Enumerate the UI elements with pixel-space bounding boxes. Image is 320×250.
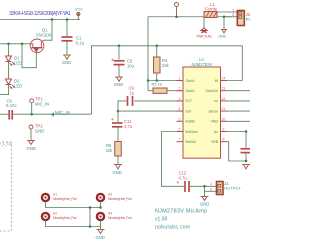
diode D2 LED [6,79,15,88]
svg-text:LED: LED [14,84,22,89]
svg-text:12: 12 [222,97,226,101]
wire pin12 to edge [227,100,250,102]
pin numbers left [179,77,181,142]
ground under J1 [201,197,209,201]
svg-text:MIC_IN: MIC_IN [35,102,49,107]
wire VCC feed riser [147,17,149,91]
svg-text:H3: H3 [108,192,112,196]
svg-text:3: 3 [179,97,181,101]
svg-text:VRef: VRef [210,120,218,124]
wire to gnd [100,227,102,230]
svg-text:VCC: VCC [75,8,83,12]
capacitor C5 [114,61,125,65]
svg-text:H1: H1 [53,192,57,196]
svg-text:MountingHole_Pad: MountingHole_Pad [53,216,77,220]
wire C1 to gnd [66,41,68,55]
transistor Q1 2SK208 [30,39,44,53]
wire diode bottom to left edge [0,85,9,95]
ground flag top-right [221,30,227,34]
svg-text:NJM2783V: NJM2783V [192,62,213,67]
testpoint TP2 [29,125,33,129]
svg-text:4: 4 [179,107,181,111]
svg-text:GND: GND [114,82,123,87]
wire VCC rail top-left [0,19,80,21]
capacitor C11 [117,111,119,122]
wire diode chain vertical [8,44,10,56]
power flag PWR_FLAG [201,28,207,33]
svg-text:5: 5 [179,117,181,121]
svg-text:GND: GND [35,129,44,134]
wire mounting holes [46,201,101,207]
svg-text:2SK208: 2SK208 [36,32,52,37]
mounting hole H4 [97,213,104,220]
svg-text:R5 1k: R5 1k [152,81,162,86]
mounting hole H3 [97,194,104,201]
svg-text:GND: GND [96,235,105,240]
wire C5 stem [118,46,120,60]
svg-text:GND: GND [200,202,209,207]
svg-text:BuMic: BuMic [186,120,196,124]
svg-text:OUTPUT: OUTPUT [224,186,242,191]
pin stubs right [221,81,228,142]
node junction TP1 [30,113,33,116]
svg-text:GND: GND [113,170,122,175]
dashed note box bottom-left [0,142,11,231]
svg-text:1: 1 [179,77,181,81]
node junction output gnd [203,185,206,188]
wire GND drop top-right [223,17,225,30]
connector J1 [217,182,224,195]
svg-text:7: 7 [179,138,181,142]
wire pin2 [167,90,183,92]
wire pin4 [118,110,183,112]
svg-text:0.1u: 0.1u [76,41,85,46]
node junction on rail at drain drop [51,18,54,21]
mounting hole H2 [42,213,49,220]
wire pin11 to edge [227,110,250,112]
wire pin6 to output [162,132,185,187]
svg-text:0.47u: 0.47u [6,103,17,108]
node junction gnd drop [223,16,226,19]
net label MIC_IN [51,112,54,116]
node junction on rail at C1 drop [66,18,69,21]
svg-text:v1.00: v1.00 [155,217,167,223]
svg-text:H2: H2 [53,211,57,215]
diode D1 LED [6,56,15,65]
svg-text:MountingHole_Pad: MountingHole_Pad [108,216,132,220]
wire riser to bias rail [91,46,242,114]
svg-text:32K#H-SG8-12SK208(A)YFYA1: 32K#H-SG8-12SK208(A)YFYA1 [9,11,71,17]
svg-text:Ferrite: Ferrite [205,7,218,12]
svg-text:BufOut: BufOut [186,140,197,144]
wire PWR_FLAG drop [203,17,205,28]
svg-text:MIC_IN: MIC_IN [55,110,70,115]
svg-text:GaInCm: GaInCm [205,89,218,93]
pin numbers right [222,77,226,142]
svg-text:22k: 22k [162,63,170,68]
ground under TP2 [27,141,35,145]
wire MIC_IN to riser [13,113,91,115]
node junction C11 [117,110,120,113]
svg-text:14: 14 [222,77,226,81]
svg-text:Sense: Sense [208,109,218,113]
svg-text:BufGain: BufGain [186,130,198,134]
capacitor C1 [62,37,73,41]
svg-text:13: 13 [222,87,226,91]
wire C5 to gnd [118,65,120,77]
svg-text:2: 2 [179,87,181,91]
svg-text:Ax: Ax [214,130,218,134]
svg-text:GND: GND [27,146,36,151]
wire gate horizontal [0,43,30,45]
svg-text:10u: 10u [127,64,135,69]
wire pin13 to edge [227,90,250,92]
wire pin1 [148,80,183,82]
ground under R6 [114,165,122,170]
ground under C5 [115,77,123,82]
mounting hole H1 [42,194,49,201]
capacitor C12 [185,181,189,192]
wire C11 to R6 [117,127,119,142]
node junction gate/diodes [7,43,10,46]
svg-text:PWR_FLAG: PWR_FLAG [197,35,213,39]
wire drain vertical [44,20,52,41]
svg-text:GND: GND [62,60,71,65]
wire MIC_IN horizontal [0,113,8,115]
svg-text:+: + [111,58,114,63]
capacitor C9 [128,96,133,106]
svg-text:10: 10 [222,117,226,121]
pin names left [186,79,198,144]
svg-text:nc: nc [214,99,218,103]
wire pin3 net [134,100,183,102]
node junction C5 [118,45,121,48]
svg-text:Out: Out [186,109,192,113]
svg-text:?_L_Cu: ?_L_Cu [0,142,12,146]
svg-text:H4: H4 [108,211,112,215]
svg-text:+: + [111,117,114,122]
power VCC circle [175,3,179,17]
wire pin3 corner [118,101,127,111]
svg-text:LED: LED [14,61,22,66]
svg-text:VRB: VRB [211,140,219,144]
wire J1 pin2 gnd [205,190,217,192]
svg-text:9: 9 [223,128,225,132]
svg-text:EXT: EXT [186,99,193,103]
ground mounting holes [97,230,105,234]
svg-text:22k: 22k [106,148,114,153]
wire pin10 to C13 [227,120,250,122]
svg-text:8: 8 [223,138,225,142]
wire between diodes [8,62,10,79]
svg-text:MountingHole_Pad: MountingHole_Pad [108,197,132,201]
resistor R6 [115,142,122,157]
svg-text:PW: PW [246,17,250,22]
IC U1 NJM2783V [183,67,221,158]
svg-text:Gain1: Gain1 [186,79,195,83]
testpoint TP1 [30,99,34,114]
pin stubs left [177,81,184,142]
svg-text:NJM2783V MicAmp: NJM2783V MicAmp [155,209,207,215]
pin names right [205,79,218,144]
svg-text:11: 11 [222,107,226,111]
svg-text:+: + [177,180,180,185]
wire pin9 path [227,142,246,161]
resistor R4 [156,45,159,48]
svg-text:6: 6 [179,128,181,132]
capacitor C6 [9,110,12,120]
ground right [242,165,250,170]
svg-text:1u: 1u [130,91,135,96]
svg-text:GND: GND [219,34,227,38]
wire gate-source loop [22,44,36,68]
svg-text:nobulabs.com: nobulabs.com [155,225,190,231]
wire C12 to J1 [190,185,217,187]
power VCC arrow left [77,12,81,19]
connector J2 [217,11,237,13]
svg-text:Gain2: Gain2 [186,89,195,93]
svg-text:MountingHole_Pad: MountingHole_Pad [53,197,77,201]
node junction gate/loop [21,43,24,46]
capacitor C13 [241,149,251,153]
svg-text:4.7u: 4.7u [124,124,133,129]
wire R6 to gnd [117,156,119,165]
wire C1 drop [66,20,68,37]
svg-text:IN: IN [215,79,219,83]
inductor L1 ferrite bead [204,12,217,18]
svg-text:4.7u: 4.7u [179,176,188,181]
ground under C1 [63,55,71,60]
resistor R5 [148,90,153,92]
wire VCC top-right [148,16,232,18]
